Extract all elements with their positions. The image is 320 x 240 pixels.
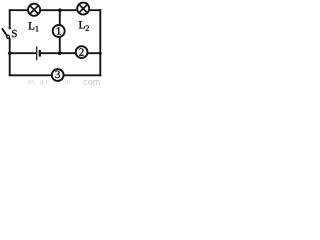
- label S: [12, 30, 17, 37]
- node: junction left rail / middle branch: [8, 51, 12, 55]
- battery negative plate (short thick): [39, 50, 41, 57]
- meter 1 (circled 1): [53, 25, 65, 37]
- node: T-junction on top rail: [58, 8, 62, 12]
- label L1: [29, 22, 39, 31]
- meter 2 digit: [79, 48, 83, 55]
- wire: middle branch right (battery to right rail): [40, 52, 100, 54]
- lamp L1: [28, 4, 40, 16]
- battery positive plate (long): [36, 46, 38, 60]
- node: junction meter-1 branch / middle branch: [58, 51, 62, 55]
- wire: right rail: [99, 9, 101, 76]
- watermark fragment "m ar": [28, 80, 48, 84]
- meter 3 (circled 3): [52, 69, 64, 81]
- watermark fragment "xb": [63, 79, 70, 84]
- switch S top terminal: [9, 27, 11, 29]
- wire: bottom rail: [9, 74, 101, 76]
- wire: top rail: [9, 9, 101, 11]
- lamp L2: [77, 3, 89, 15]
- label L2: [79, 21, 89, 31]
- wire: middle branch left (left rail to battery): [10, 52, 37, 54]
- meter 3 digit: [55, 71, 60, 78]
- meter 2 (circled 2): [76, 46, 88, 58]
- wire: meter-1 vertical branch (top rail to middle branch): [59, 10, 61, 53]
- wire: left rail upper segment (corner to switch): [9, 9, 11, 28]
- battery: [37, 46, 40, 60]
- switch S blade (open): [2, 28, 7, 36]
- switch S: [2, 27, 11, 38]
- switch S pivot terminal: [7, 35, 10, 38]
- watermark fragment "com": [84, 80, 100, 85]
- meter 1 digit: [57, 27, 61, 34]
- node: junction middle branch / right rail: [99, 52, 102, 55]
- wire: left rail lower segment (switch to bottom corner): [9, 38, 11, 76]
